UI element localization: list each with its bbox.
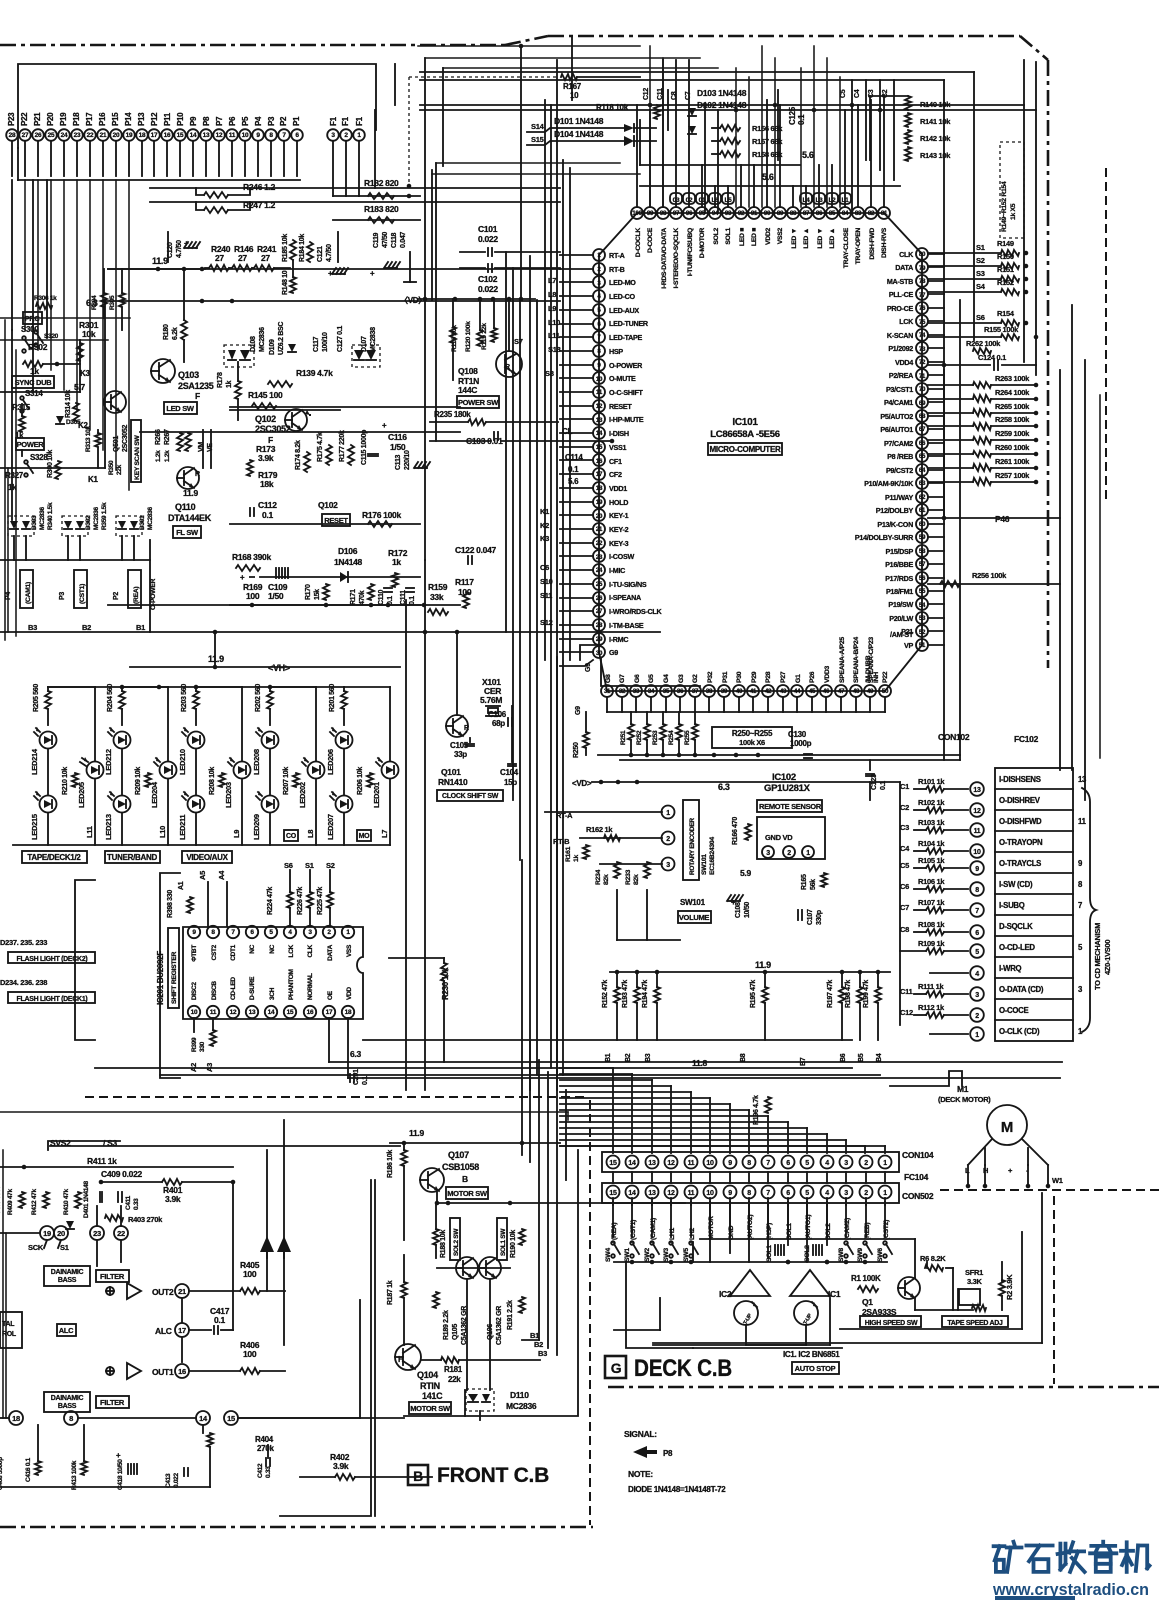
box DAINAMIC BASS 1 bbox=[44, 1266, 90, 1286]
svg-text:I-WRQ: I-WRQ bbox=[999, 964, 1022, 973]
svg-text:+: + bbox=[240, 573, 245, 582]
svg-text:C101: C101 bbox=[478, 224, 498, 234]
svg-text:D-COCLK: D-COCLK bbox=[635, 228, 642, 258]
svg-text:90: 90 bbox=[764, 210, 771, 217]
svg-text:R235 180k: R235 180k bbox=[434, 410, 471, 419]
svg-text:G4: G4 bbox=[663, 674, 670, 683]
connector CON104 pin 8 bbox=[743, 1156, 756, 1169]
svg-text:P1/2092: P1/2092 bbox=[888, 344, 913, 353]
svg-text:10: 10 bbox=[570, 91, 579, 100]
svg-text:R411 1k: R411 1k bbox=[87, 1156, 117, 1166]
svg-text:31: 31 bbox=[604, 688, 611, 695]
svg-text:330p: 330p bbox=[816, 910, 823, 925]
svg-text:P13/K-CON: P13/K-CON bbox=[877, 520, 913, 529]
svg-text:R101 1k: R101 1k bbox=[918, 777, 945, 786]
svg-text:D106: D106 bbox=[338, 546, 358, 556]
svg-text:R103 1k: R103 1k bbox=[918, 818, 945, 827]
svg-text:R167: R167 bbox=[563, 82, 582, 91]
connector CON104 box bbox=[602, 1152, 899, 1172]
svg-text:86: 86 bbox=[816, 210, 823, 217]
svg-text:FL SW: FL SW bbox=[176, 528, 199, 537]
remote sensor body bbox=[757, 817, 825, 859]
svg-text:RT-B: RT-B bbox=[609, 265, 625, 274]
junction dots vd bus 299 bbox=[519, 297, 524, 302]
svg-text:3.9k: 3.9k bbox=[258, 453, 274, 463]
svg-text:2: 2 bbox=[975, 1013, 979, 1020]
box POWER SW bbox=[457, 396, 499, 408]
tag labels above pins bbox=[670, 193, 682, 204]
svg-text:LH1: LH1 bbox=[669, 1228, 676, 1240]
svg-text:BASS: BASS bbox=[58, 1403, 77, 1410]
svg-text:LED213: LED213 bbox=[104, 814, 113, 840]
svg-text:C115 1000p: C115 1000p bbox=[361, 430, 368, 465]
LED LED215 bbox=[40, 796, 57, 813]
svg-text:C7: C7 bbox=[900, 903, 909, 912]
svg-text:R202 560: R202 560 bbox=[255, 684, 262, 712]
svg-text:R233: R233 bbox=[625, 869, 632, 885]
svg-text:TRAY-OPEN: TRAY-OPEN bbox=[855, 228, 862, 265]
motor M1 circle bbox=[987, 1105, 1027, 1145]
svg-text:P2: P2 bbox=[279, 116, 288, 126]
svg-text:R224 47k: R224 47k bbox=[267, 887, 274, 915]
resistor R265 100k bbox=[973, 409, 991, 416]
svg-text:B3: B3 bbox=[28, 623, 37, 632]
svg-text:50: 50 bbox=[882, 688, 889, 695]
svg-text:P16/BBE: P16/BBE bbox=[885, 560, 913, 569]
svg-text:M: M bbox=[1001, 1119, 1013, 1136]
junction dots 11.9 led bbox=[213, 665, 218, 670]
LED LED209 bbox=[262, 796, 279, 813]
svg-text:R252: R252 bbox=[636, 730, 643, 745]
svg-text:P12/DOLBY: P12/DOLBY bbox=[876, 506, 914, 515]
svg-text:R102 1k: R102 1k bbox=[918, 798, 945, 807]
svg-text:R107 1k: R107 1k bbox=[918, 898, 945, 907]
svg-text:R264 100k: R264 100k bbox=[995, 388, 1030, 397]
LED array bottom rail bbox=[13, 844, 390, 846]
box ALC bbox=[57, 1324, 76, 1336]
svg-text:HSP: HSP bbox=[609, 347, 623, 356]
svg-text:R409 47k: R409 47k bbox=[7, 1189, 14, 1215]
svg-text:3: 3 bbox=[844, 1190, 848, 1197]
svg-text:18: 18 bbox=[345, 1009, 352, 1016]
junction dots CON502 bus bbox=[786, 1260, 791, 1265]
svg-text:5.9: 5.9 bbox=[740, 868, 751, 878]
svg-text:K1: K1 bbox=[88, 475, 98, 484]
svg-text:10: 10 bbox=[596, 376, 603, 383]
connector CON104 pin 12 bbox=[665, 1156, 678, 1169]
svg-text:C121: C121 bbox=[317, 246, 324, 262]
svg-text:C119: C119 bbox=[373, 232, 380, 248]
connector CON104 pin 13 bbox=[646, 1156, 659, 1169]
FC102 connector table bbox=[995, 768, 1073, 1041]
svg-text:P8: P8 bbox=[663, 1449, 673, 1458]
svg-text:Q108: Q108 bbox=[458, 366, 478, 376]
svg-text:OE: OE bbox=[327, 990, 334, 1000]
svg-text:+: + bbox=[382, 421, 387, 430]
ground sym rotary bbox=[727, 895, 731, 901]
svg-text:5.6: 5.6 bbox=[802, 150, 814, 160]
svg-text:P7: P7 bbox=[215, 116, 224, 126]
svg-text:13: 13 bbox=[648, 1190, 656, 1197]
svg-text:LED ▼: LED ▼ bbox=[817, 228, 824, 249]
wire pin29 hook bbox=[580, 645, 596, 660]
transistor Q102 2SC3052 bbox=[285, 409, 307, 431]
svg-text:S11: S11 bbox=[540, 591, 552, 600]
box KEY SCAN SW rot bbox=[131, 420, 141, 482]
svg-text:16: 16 bbox=[307, 1009, 314, 1016]
resistor R158 68k bbox=[720, 151, 740, 157]
svg-text:F1: F1 bbox=[355, 116, 364, 126]
svg-text:R170: R170 bbox=[305, 584, 312, 600]
svg-text:+: + bbox=[731, 898, 736, 907]
resistor R261 100k bbox=[973, 464, 991, 471]
svg-text:C413: C413 bbox=[165, 1473, 172, 1488]
svg-text:P10: P10 bbox=[176, 112, 185, 126]
svg-text:D-SQCLK: D-SQCLK bbox=[999, 922, 1033, 931]
svg-text:47/50: 47/50 bbox=[382, 232, 389, 248]
svg-text:26: 26 bbox=[35, 132, 42, 139]
svg-text:S2: S2 bbox=[976, 256, 985, 265]
svg-text:R250: R250 bbox=[573, 742, 580, 758]
svg-text:I-TUN/IFC/SUBQ: I-TUN/IFC/SUBQ bbox=[687, 228, 694, 276]
svg-text:I-HP-MUTE: I-HP-MUTE bbox=[609, 415, 644, 424]
svg-text:R168 390k: R168 390k bbox=[232, 552, 271, 562]
svg-text:96: 96 bbox=[686, 210, 693, 217]
svg-text:88: 88 bbox=[790, 210, 797, 217]
svg-text:18k: 18k bbox=[260, 479, 274, 489]
svg-text:37: 37 bbox=[692, 688, 699, 695]
connector CON502 pin 3 bbox=[840, 1186, 853, 1199]
svg-text:4: 4 bbox=[975, 971, 979, 978]
svg-text:R184 10k: R184 10k bbox=[299, 234, 306, 262]
svg-text:ALC: ALC bbox=[59, 1326, 74, 1335]
svg-text:R404: R404 bbox=[255, 1435, 274, 1444]
svg-text:R185 10k: R185 10k bbox=[282, 234, 289, 262]
LED LED210 bbox=[188, 732, 205, 749]
svg-text:O-DISHREV: O-DISHREV bbox=[999, 796, 1041, 805]
svg-text:R154: R154 bbox=[997, 309, 1015, 318]
svg-text:D103 1N4148: D103 1N4148 bbox=[697, 88, 747, 98]
svg-text:K3: K3 bbox=[80, 369, 90, 378]
svg-text:C8: C8 bbox=[900, 925, 909, 934]
junction dots bottom bus 755 bbox=[712, 753, 717, 758]
svg-text:S14: S14 bbox=[531, 122, 545, 131]
svg-text:R262 100k: R262 100k bbox=[966, 339, 1001, 348]
svg-text:KEY-3: KEY-3 bbox=[609, 539, 629, 548]
deck inner wires bbox=[700, 1238, 915, 1240]
svg-text:LED209: LED209 bbox=[252, 814, 261, 840]
box TAPE SPEED ADJ bbox=[942, 1316, 1008, 1327]
front sub-circuit box bbox=[404, 1150, 578, 1416]
svg-text:A4: A4 bbox=[217, 870, 226, 880]
svg-text:GND: GND bbox=[728, 1225, 735, 1240]
svg-text:SFR1: SFR1 bbox=[965, 1268, 983, 1277]
svg-text:5.6: 5.6 bbox=[762, 172, 774, 182]
svg-text:27: 27 bbox=[22, 132, 29, 139]
svg-text:S1: S1 bbox=[305, 861, 314, 870]
B FRONT C.B title bbox=[408, 1465, 428, 1485]
svg-text:1: 1 bbox=[975, 1032, 979, 1039]
long verticals front-deck bbox=[521, 860, 523, 1155]
svg-text:15: 15 bbox=[287, 1009, 294, 1016]
svg-text:P8 /REB: P8 /REB bbox=[887, 452, 913, 461]
resistor R247 1.2 bbox=[196, 202, 204, 210]
svg-text:CLK: CLK bbox=[307, 944, 314, 957]
dashed wire right of motor bbox=[940, 1189, 1159, 1191]
wire Q107 bus bbox=[437, 1202, 685, 1204]
svg-text:VDD4: VDD4 bbox=[895, 358, 913, 367]
svg-text:LED202: LED202 bbox=[298, 782, 307, 808]
svg-text:D101 1N4148: D101 1N4148 bbox=[554, 116, 604, 126]
svg-text:P18: P18 bbox=[72, 112, 81, 126]
svg-text:K3: K3 bbox=[540, 534, 549, 543]
box HIGH SPEED SW bbox=[860, 1316, 921, 1327]
wires under IC bbox=[598, 754, 960, 756]
svg-text:O-MUTE: O-MUTE bbox=[609, 374, 636, 383]
svg-text:98: 98 bbox=[660, 210, 667, 217]
svg-text:16: 16 bbox=[178, 1367, 186, 1376]
svg-text:MC2836: MC2836 bbox=[39, 507, 46, 530]
long right vertical wires bbox=[943, 80, 945, 254]
IC201 body bbox=[183, 927, 363, 1019]
connector CON102 pin 4 bbox=[930, 972, 968, 974]
svg-text:H: H bbox=[398, 1355, 404, 1364]
svg-text:100: 100 bbox=[243, 1349, 257, 1359]
svg-text:IC2: IC2 bbox=[719, 1289, 732, 1299]
svg-text:RTIN: RTIN bbox=[420, 1381, 440, 1391]
svg-text:I-COSW: I-COSW bbox=[609, 552, 634, 561]
svg-text:LED214: LED214 bbox=[30, 748, 39, 775]
svg-text:1k: 1k bbox=[226, 380, 233, 388]
svg-text:(AUTO1): (AUTO1) bbox=[805, 1215, 812, 1240]
svg-text:R1 100K: R1 100K bbox=[851, 1274, 881, 1283]
wires CON502 pins down bbox=[612, 1202, 614, 1237]
connector CON104 pin 15 bbox=[607, 1156, 620, 1169]
wires F1 down bbox=[332, 141, 334, 196]
svg-text:R6 8.2K: R6 8.2K bbox=[920, 1254, 946, 1263]
svg-text:1N4148: 1N4148 bbox=[334, 557, 363, 567]
svg-text:G9: G9 bbox=[575, 706, 582, 715]
svg-text:(HSP): (HSP) bbox=[766, 1223, 773, 1240]
sensor pins 3 2 1 bbox=[762, 846, 774, 858]
svg-text:P4: P4 bbox=[5, 592, 12, 600]
svg-text:77: 77 bbox=[919, 292, 926, 299]
svg-text:B2: B2 bbox=[625, 1053, 632, 1062]
svg-text:93: 93 bbox=[725, 210, 732, 217]
svg-text:100: 100 bbox=[632, 210, 642, 217]
wires from right pins bbox=[928, 253, 944, 255]
svg-text:R410 47k: R410 47k bbox=[63, 1189, 70, 1215]
svg-text:I-RDS-DATA/O-DATA: I-RDS-DATA/O-DATA bbox=[661, 228, 668, 289]
wire CON104 to motor bbox=[890, 1071, 962, 1086]
diode cluster D303 MC2836 bbox=[8, 516, 34, 536]
long verticals mid-left bbox=[405, 600, 407, 1090]
svg-text:16: 16 bbox=[596, 458, 603, 465]
svg-text:P1: P1 bbox=[292, 116, 301, 126]
wire y68 bbox=[443, 67, 718, 69]
svg-text:C412: C412 bbox=[257, 1463, 264, 1478]
svg-text:81: 81 bbox=[881, 210, 888, 217]
svg-text:R350: R350 bbox=[108, 460, 115, 475]
svg-text:49: 49 bbox=[867, 688, 874, 695]
motor symbol IC1 bbox=[794, 1301, 818, 1325]
svg-text:C3: C3 bbox=[900, 823, 909, 832]
box FILTER 2 bbox=[96, 1396, 129, 1408]
svg-text:R198 47k: R198 47k bbox=[845, 980, 852, 1008]
svg-text:P8: P8 bbox=[202, 116, 211, 126]
left vertical wires from connector bbox=[32, 180, 34, 392]
arrow P8 bbox=[633, 1446, 657, 1458]
svg-text:0.1: 0.1 bbox=[262, 510, 273, 520]
svg-text:MICRO-COMPUTER: MICRO-COMPUTER bbox=[710, 445, 781, 454]
svg-text:39: 39 bbox=[721, 688, 728, 695]
svg-text:A5: A5 bbox=[198, 871, 207, 880]
svg-text:B3: B3 bbox=[645, 1053, 652, 1062]
svg-text:R187 1k: R187 1k bbox=[387, 1280, 394, 1305]
svg-text:R313 10k: R313 10k bbox=[85, 426, 92, 452]
svg-text:LED-TUNER: LED-TUNER bbox=[609, 319, 649, 328]
IC101 right pins 80..51 bbox=[916, 248, 928, 260]
svg-text:LED SW: LED SW bbox=[166, 404, 195, 413]
svg-text:P9/CST2: P9/CST2 bbox=[886, 466, 913, 475]
svg-text:R226 47k: R226 47k bbox=[297, 887, 304, 915]
svg-text:P4: P4 bbox=[254, 116, 263, 126]
svg-text:LH2: LH2 bbox=[689, 1228, 696, 1240]
wire fan below connector bbox=[11, 141, 13, 176]
svg-text:R190 10k: R190 10k bbox=[510, 1230, 517, 1258]
svg-text:64: 64 bbox=[919, 467, 926, 474]
svg-text:ALC: ALC bbox=[155, 1326, 172, 1336]
svg-text:VOLUME: VOLUME bbox=[679, 913, 710, 922]
svg-text:P6: P6 bbox=[228, 116, 237, 126]
svg-text:1000p: 1000p bbox=[790, 739, 812, 748]
svg-text:LED205: LED205 bbox=[77, 782, 86, 808]
svg-text:B3: B3 bbox=[538, 1349, 547, 1358]
svg-text:84: 84 bbox=[842, 210, 849, 217]
svg-text:O-POWER: O-POWER bbox=[609, 361, 643, 370]
svg-text:R265 100k: R265 100k bbox=[995, 402, 1030, 411]
svg-text:O-POWER: O-POWER bbox=[150, 578, 157, 610]
svg-text:P31: P31 bbox=[722, 671, 729, 683]
dashed wire R167 bbox=[409, 76, 556, 78]
connector CON502 pin 4 bbox=[821, 1186, 834, 1199]
svg-text:(REB): (REB) bbox=[864, 1223, 871, 1240]
svg-text:54: 54 bbox=[919, 602, 926, 609]
svg-text:15: 15 bbox=[227, 1414, 235, 1423]
svg-text:+: + bbox=[370, 269, 375, 278]
svg-text:O-DATA (CD): O-DATA (CD) bbox=[999, 985, 1044, 994]
svg-text:4.7/50: 4.7/50 bbox=[326, 244, 333, 262]
rotary encoder body bbox=[683, 800, 699, 880]
svg-text:B: B bbox=[462, 1174, 468, 1184]
svg-text:(REA): (REA) bbox=[611, 1223, 618, 1240]
svg-text:P22: P22 bbox=[882, 671, 889, 683]
svg-text:76: 76 bbox=[919, 305, 926, 312]
svg-text:46: 46 bbox=[823, 688, 830, 695]
svg-text:12: 12 bbox=[667, 1190, 675, 1197]
svg-text:NOTE:: NOTE: bbox=[628, 1469, 653, 1479]
svg-text:I-STEREO/O-SQCLK: I-STEREO/O-SQCLK bbox=[673, 228, 680, 289]
svg-text:11.9: 11.9 bbox=[183, 488, 198, 498]
svg-text:99: 99 bbox=[647, 210, 654, 217]
svg-text:LED-AUX: LED-AUX bbox=[609, 306, 639, 315]
svg-text:65: 65 bbox=[919, 453, 926, 460]
svg-text:CL: CL bbox=[562, 427, 572, 436]
svg-text:C1: C1 bbox=[900, 782, 909, 791]
svg-text:P19/SW: P19/SW bbox=[888, 600, 913, 609]
svg-text:R139 4.7k: R139 4.7k bbox=[296, 368, 333, 378]
svg-text:/AM-ST: /AM-ST bbox=[890, 630, 914, 639]
box MO bbox=[357, 830, 371, 841]
svg-text:62: 62 bbox=[919, 494, 926, 501]
svg-text:P4/CAM1: P4/CAM1 bbox=[884, 398, 913, 407]
svg-text:MC2838: MC2838 bbox=[370, 327, 377, 352]
svg-text:C12: C12 bbox=[643, 88, 650, 100]
svg-text:PRO-CE: PRO-CE bbox=[887, 304, 914, 313]
svg-text:P18/FM1: P18/FM1 bbox=[886, 587, 913, 596]
svg-text:P9: P9 bbox=[189, 116, 198, 126]
box AUTO STOP bbox=[792, 1362, 839, 1374]
svg-text:22k: 22k bbox=[448, 1375, 461, 1384]
svg-text:6.3: 6.3 bbox=[350, 1049, 361, 1059]
svg-text:RN1410: RN1410 bbox=[438, 777, 468, 787]
svg-text:P30: P30 bbox=[736, 671, 743, 683]
svg-text:7: 7 bbox=[766, 1160, 770, 1167]
svg-text:R140 10k: R140 10k bbox=[920, 100, 951, 109]
connector CON502 pin 2 bbox=[860, 1186, 873, 1199]
wires Q110 bbox=[177, 467, 199, 489]
svg-text:TAPE SPEED ADJ: TAPE SPEED ADJ bbox=[947, 1320, 1003, 1327]
svg-text:C408 5500p: C408 5500p bbox=[0, 1457, 4, 1490]
svg-text:R197 47k: R197 47k bbox=[827, 980, 834, 1008]
svg-text:19: 19 bbox=[43, 1229, 51, 1238]
svg-text:61: 61 bbox=[919, 507, 926, 514]
svg-text:TRAY-CLOSE: TRAY-CLOSE bbox=[843, 227, 850, 268]
box STAL CONTROL edge bbox=[0, 1312, 22, 1348]
svg-text:S6: S6 bbox=[976, 313, 985, 322]
svg-text:VDD2: VDD2 bbox=[765, 227, 772, 244]
svg-text:R181: R181 bbox=[444, 1365, 463, 1374]
svg-text:R314 10k: R314 10k bbox=[65, 390, 72, 418]
svg-text:82k: 82k bbox=[633, 874, 640, 885]
svg-text:FC104: FC104 bbox=[904, 1172, 929, 1182]
svg-text:INH: INH bbox=[873, 672, 880, 683]
svg-text:63: 63 bbox=[919, 480, 926, 487]
svg-text:23: 23 bbox=[93, 1229, 101, 1238]
svg-text:R165: R165 bbox=[801, 874, 808, 890]
svg-text:1k: 1k bbox=[573, 855, 580, 862]
svg-text:CDT1: CDT1 bbox=[230, 944, 237, 960]
svg-text:5.7: 5.7 bbox=[74, 382, 85, 392]
svg-text:(CAM1): (CAM1) bbox=[25, 582, 32, 604]
svg-text:0.047: 0.047 bbox=[400, 232, 407, 248]
svg-text:L11: L11 bbox=[85, 826, 94, 838]
svg-text:0.022: 0.022 bbox=[173, 1473, 180, 1488]
svg-text:LED ▲: LED ▲ bbox=[803, 228, 810, 249]
box SYNC DUB bbox=[12, 376, 54, 388]
svg-text:FILTER: FILTER bbox=[100, 1398, 125, 1407]
svg-text:F: F bbox=[195, 391, 200, 401]
svg-text:SOL2: SOL2 bbox=[804, 1245, 811, 1262]
far right dash-dot segments bbox=[1105, 168, 1107, 500]
svg-text:C8: C8 bbox=[671, 91, 678, 100]
svg-text:C6: C6 bbox=[900, 882, 909, 891]
svg-text:S1: S1 bbox=[976, 243, 985, 252]
op-amp triangle 2 bbox=[127, 1363, 141, 1379]
LED LED202 bbox=[308, 762, 325, 779]
svg-text:21: 21 bbox=[178, 1287, 186, 1296]
connector P-row outline box bbox=[18, 64, 376, 148]
